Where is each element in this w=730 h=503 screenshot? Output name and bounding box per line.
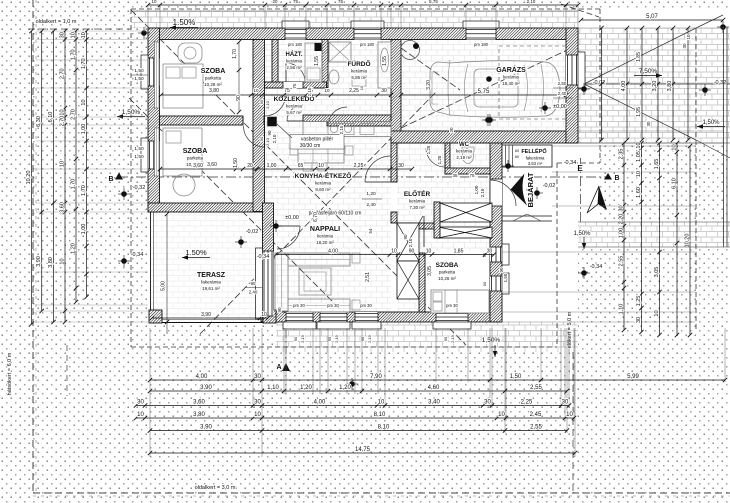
svg-text:35: 35 <box>452 173 458 178</box>
svg-text:90: 90 <box>259 99 264 104</box>
svg-text:3,20: 3,20 <box>426 80 432 90</box>
svg-text:4,00: 4,00 <box>196 374 208 380</box>
radiator strip szoba1 <box>155 42 160 108</box>
svg-text:3,90: 3,90 <box>200 425 212 431</box>
wall garage south <box>391 131 578 143</box>
svg-text:7,50%: 7,50% <box>639 68 658 75</box>
wardrobe eloter <box>440 203 492 222</box>
svg-text:2,10: 2,10 <box>265 100 270 109</box>
wall wc west partition <box>445 143 450 174</box>
dimension chain left col4 <box>64 31 66 322</box>
svg-text:1,50: 1,50 <box>134 76 144 82</box>
svg-text:GARÁZS: GARÁZS <box>496 65 526 74</box>
terrace edge lines <box>150 212 152 323</box>
svg-text:előkert = 5,0 m: előkert = 5,0 m <box>567 311 573 348</box>
svg-text:90: 90 <box>236 95 242 101</box>
svg-text:SZOBA: SZOBA <box>183 148 208 155</box>
svg-text:1,25: 1,25 <box>437 155 442 164</box>
dimension chain left col2 <box>41 31 43 311</box>
svg-text:1,25: 1,25 <box>426 145 431 154</box>
szoba1 armchair <box>178 43 202 63</box>
dimension chain bottom row 1 <box>150 379 725 381</box>
svg-text:E: E <box>577 164 583 173</box>
wall szoba1/szoba2 divider <box>160 116 244 125</box>
interior dim line kitchen y169 <box>160 168 412 170</box>
svg-text:1,50: 1,50 <box>233 158 239 168</box>
szoba2 bed <box>163 128 202 176</box>
svg-text:1,55: 1,55 <box>382 56 388 66</box>
svg-text:-0,32: -0,32 <box>714 80 727 86</box>
svg-text:90: 90 <box>409 249 415 255</box>
svg-text:NAPPALI: NAPPALI <box>310 226 340 233</box>
svg-text:75: 75 <box>284 88 290 94</box>
svg-text:30: 30 <box>484 400 491 406</box>
survey point <box>121 191 127 197</box>
svg-text:30: 30 <box>449 127 454 133</box>
svg-text:10: 10 <box>426 249 432 255</box>
svg-text:1,10: 1,10 <box>267 385 279 391</box>
svg-text:10,20: 10,20 <box>26 171 32 185</box>
svg-text:10: 10 <box>71 32 77 38</box>
svg-text:2,10: 2,10 <box>272 134 277 143</box>
window west szoba2 <box>148 141 160 169</box>
svg-text:1,85: 1,85 <box>454 249 464 255</box>
svg-text:FÜRDŐ: FÜRDŐ <box>347 59 370 68</box>
hazt boiler dark box <box>315 43 322 51</box>
garage interior dashed clearance box <box>499 46 566 119</box>
svg-text:2,20: 2,20 <box>619 214 625 225</box>
wall furdo south partition <box>327 120 391 126</box>
svg-text:2,45: 2,45 <box>530 412 542 418</box>
svg-text:1,55: 1,55 <box>314 56 320 66</box>
extension lines left side <box>36 30 148 32</box>
svg-text:ELŐTÉR: ELŐTÉR <box>404 189 431 198</box>
svg-text:1,50%: 1,50% <box>702 120 720 126</box>
svg-text:30/30 cm: 30/30 cm <box>300 143 321 149</box>
furdo shower <box>329 42 351 62</box>
svg-text:A: A <box>276 364 281 371</box>
wall wc south partition <box>445 168 490 174</box>
svg-text:3,60: 3,60 <box>60 202 66 213</box>
driveway slope fan lines <box>584 28 696 84</box>
svg-text:10: 10 <box>60 161 66 167</box>
eave edge line <box>131 10 578 12</box>
svg-text:1.50%: 1.50% <box>173 18 196 27</box>
svg-text:5,67 m²: 5,67 m² <box>286 110 302 115</box>
svg-text:kerámia: kerámia <box>315 181 332 186</box>
svg-text:10: 10 <box>151 0 157 4</box>
entrance porch white area <box>502 143 599 222</box>
svg-text:pm 30: pm 30 <box>360 303 372 308</box>
svg-text:6,70: 6,70 <box>313 212 319 222</box>
svg-text:3,80: 3,80 <box>193 412 205 418</box>
porch platform edge <box>502 215 552 217</box>
svg-text:fakerámia: fakerámia <box>526 156 545 161</box>
svg-text:2,10: 2,10 <box>527 0 536 4</box>
window north garage pm180 <box>466 28 496 40</box>
svg-text:5,75: 5,75 <box>478 89 490 95</box>
svg-text:8,10: 8,10 <box>374 412 386 418</box>
svg-text:30: 30 <box>254 374 261 380</box>
svg-text:1,50%: 1,50% <box>573 231 591 237</box>
svg-text:10: 10 <box>261 312 267 318</box>
svg-text:10,28 m²: 10,28 m² <box>204 82 222 87</box>
svg-text:75: 75 <box>292 83 297 89</box>
paving right driveway area <box>578 28 730 143</box>
svg-text:8,10: 8,10 <box>378 425 390 431</box>
svg-text:10: 10 <box>81 99 87 105</box>
divider door jamb lines <box>242 116 244 125</box>
svg-text:HÁZT.: HÁZT. <box>286 51 303 58</box>
window north furdo pm180 <box>354 28 381 40</box>
wall garage east <box>566 28 578 143</box>
svg-text:10: 10 <box>378 400 385 406</box>
svg-text:-0,34: -0,34 <box>131 252 144 258</box>
svg-text:10: 10 <box>566 412 573 418</box>
section mark B right <box>604 173 612 180</box>
section line B-B dash-dot <box>118 176 610 178</box>
svg-text:5,99: 5,99 <box>627 374 639 380</box>
pillar note <box>290 135 344 150</box>
svg-text:hátsókert = 6,0 m: hátsókert = 6,0 m <box>7 352 13 395</box>
svg-text:-0,34: -0,34 <box>564 160 577 166</box>
attic ladder padlasfeljaro <box>397 223 419 261</box>
svg-text:3,60: 3,60 <box>207 162 217 168</box>
survey point <box>487 117 493 123</box>
svg-text:1,00: 1,00 <box>474 185 479 194</box>
svg-text:10: 10 <box>254 412 261 418</box>
svg-text:60: 60 <box>515 149 519 153</box>
svg-text:8,60 m²: 8,60 m² <box>315 187 331 192</box>
svg-text:1,20: 1,20 <box>339 385 351 391</box>
door terrace door swing <box>277 226 300 249</box>
svg-text:10,26 m²: 10,26 m² <box>438 276 456 281</box>
svg-text:18,40 m²: 18,40 m² <box>502 81 520 86</box>
svg-text:1,20: 1,20 <box>366 191 376 197</box>
svg-text:75: 75 <box>338 0 344 4</box>
garage roof hip dash stub <box>561 4 599 17</box>
svg-text:30: 30 <box>646 121 651 127</box>
door szoba3 thin swing <box>416 216 423 247</box>
svg-text:1,70: 1,70 <box>232 49 238 59</box>
svg-text:5,07: 5,07 <box>646 14 658 20</box>
right lower total 10,20 <box>689 146 691 335</box>
svg-text:WC: WC <box>459 142 470 148</box>
svg-text:10: 10 <box>686 34 691 40</box>
svg-text:1,50%: 1,50% <box>122 109 141 116</box>
svg-text:5,00: 5,00 <box>161 281 167 291</box>
wall exterior north <box>148 28 578 40</box>
dimension chain left col5 <box>75 31 77 302</box>
door corridor to kitchen door <box>287 105 303 121</box>
svg-text:10: 10 <box>498 412 505 418</box>
door wc door <box>426 148 445 167</box>
svg-text:2,55: 2,55 <box>530 385 542 391</box>
svg-text:3,05: 3,05 <box>427 266 433 276</box>
svg-text:90: 90 <box>360 336 365 341</box>
svg-text:fakerámia: fakerámia <box>201 280 221 285</box>
extension lines bottom <box>149 328 151 457</box>
svg-text:1,70: 1,70 <box>71 179 77 190</box>
svg-text:-0,34: -0,34 <box>257 254 270 260</box>
svg-text:SZOBA: SZOBA <box>436 262 459 269</box>
roof hip diagonal rising to garage ridge <box>200 92 436 334</box>
extension lines top <box>147 5 149 28</box>
svg-text:90: 90 <box>499 267 504 273</box>
svg-text:1,20: 1,20 <box>71 243 77 254</box>
survey point <box>581 86 587 92</box>
dimension chain bottom total 14,75 <box>150 452 575 454</box>
svg-text:19,61 m²: 19,61 m² <box>202 286 220 291</box>
svg-text:-0,32: -0,32 <box>133 185 146 191</box>
street curb lines right <box>723 27 725 247</box>
svg-text:parketta: parketta <box>187 156 204 161</box>
svg-text:-0,02: -0,02 <box>246 229 259 235</box>
svg-text:3,90: 3,90 <box>200 385 212 391</box>
svg-text:90: 90 <box>327 336 332 341</box>
szoba3 parquet (white) <box>425 251 490 312</box>
door kitchen open to eloter <box>365 156 391 182</box>
right upper dim line x658 <box>657 28 659 140</box>
dimension chain bottom row 2 <box>150 390 567 392</box>
svg-text:2,19: 2,19 <box>334 334 339 343</box>
svg-text:10: 10 <box>253 88 259 93</box>
svg-text:3,05: 3,05 <box>654 267 660 278</box>
dimension chain bottom row 4 <box>136 417 574 419</box>
svg-text:parketta: parketta <box>205 76 222 81</box>
svg-text:-0,02: -0,02 <box>593 80 606 86</box>
svg-text:1,00: 1,00 <box>619 228 625 239</box>
house interior base (white) <box>148 28 578 322</box>
szoba3 bed <box>431 290 489 313</box>
kitchen table and chairs <box>298 144 344 163</box>
dimension chain left total 10,20 <box>31 31 33 324</box>
svg-text:1,95: 1,95 <box>636 107 642 117</box>
svg-text:SZOBA: SZOBA <box>201 68 226 75</box>
dimension top 5,07 <box>581 19 723 21</box>
setback line hatsokert dashed <box>66 345 68 396</box>
furdo bathtub <box>378 42 391 88</box>
paving sidewalk band east <box>578 222 730 247</box>
svg-text:-0,02: -0,02 <box>543 183 556 189</box>
svg-text:10: 10 <box>137 412 144 418</box>
window east szoba3 lower <box>490 276 502 291</box>
window south nappali w1 <box>286 312 313 322</box>
svg-text:2,19: 2,19 <box>300 334 305 343</box>
survey point <box>542 105 548 111</box>
svg-text:30: 30 <box>562 400 569 406</box>
svg-text:FELLÉPŐ: FELLÉPŐ <box>521 147 547 155</box>
svg-text:5,75: 5,75 <box>429 0 438 4</box>
wall hazt/furdo partition <box>322 40 328 88</box>
svg-text:1,70: 1,70 <box>81 185 87 196</box>
svg-text:54: 54 <box>368 228 373 234</box>
window terrace door from nappali <box>263 251 274 316</box>
svg-text:10: 10 <box>359 85 364 90</box>
dimension chain left col3 <box>53 31 55 322</box>
svg-text:pm 30: pm 30 <box>446 303 458 308</box>
kitchen counter with sink <box>303 122 391 137</box>
wall garage west <box>391 40 401 144</box>
roof hip diagonal from NW corner <box>131 10 466 345</box>
svg-text:1,60: 1,60 <box>636 187 642 198</box>
tiled floors: hallway/kitchen/bath/garage <box>264 39 391 134</box>
svg-text:10: 10 <box>654 310 660 316</box>
sidewalk band edge lines <box>578 221 730 223</box>
paving top strip <box>131 11 578 28</box>
right upper dim line x642 <box>641 28 643 140</box>
survey point <box>505 163 511 169</box>
svg-text:3,60: 3,60 <box>193 163 203 169</box>
svg-text:30: 30 <box>254 400 261 406</box>
svg-text:-0,34: -0,34 <box>590 264 603 270</box>
svg-text:10: 10 <box>318 163 324 169</box>
survey point <box>121 258 127 264</box>
property line west dashed <box>32 0 34 493</box>
wall exterior west <box>148 28 160 212</box>
garage roof diagonal <box>401 45 578 128</box>
svg-text:vasbeton pillér: vasbeton pillér <box>301 137 334 143</box>
svg-text:75: 75 <box>469 173 475 178</box>
hazt washer <box>305 43 322 82</box>
interior rotated dims <box>238 42 240 112</box>
wall exterior south <box>261 312 502 322</box>
white band above right paving <box>578 9 730 28</box>
svg-text:1,50: 1,50 <box>503 273 508 282</box>
section line E vertical <box>580 158 582 222</box>
car in garage <box>430 61 560 118</box>
wall hazt west partition <box>272 40 278 88</box>
svg-text:2,40: 2,40 <box>249 290 258 295</box>
svg-text:2,50: 2,50 <box>558 81 567 86</box>
svg-text:30: 30 <box>381 88 387 94</box>
svg-text:2,70: 2,70 <box>71 109 77 120</box>
wall exterior east <box>490 131 502 322</box>
svg-text:1,50%: 1,50% <box>482 337 501 344</box>
wardrobe szoba3 <box>438 227 492 238</box>
svg-text:30: 30 <box>682 43 687 49</box>
entrance arrow black triangle <box>511 174 528 206</box>
right upper dim line x673 <box>672 28 674 140</box>
roof overhang dashed outline <box>131 8 600 10</box>
svg-text:30: 30 <box>487 249 493 255</box>
survey point <box>485 117 491 123</box>
wall hazt south partition <box>265 82 327 88</box>
svg-text:10: 10 <box>60 109 66 115</box>
window east szoba3 upper <box>490 247 502 262</box>
svg-text:1,00: 1,00 <box>81 124 87 135</box>
door szoba1 from corridor <box>265 95 286 116</box>
door szoba2 from corridor <box>244 126 265 147</box>
svg-text:B: B <box>614 175 619 182</box>
extension lines right side <box>578 27 723 29</box>
svg-text:2,25: 2,25 <box>349 88 359 94</box>
svg-text:kerámia: kerámia <box>503 75 520 80</box>
entrance door opening <box>490 179 502 206</box>
wall kitchen east partition upper <box>391 143 397 182</box>
svg-text:1,10: 1,10 <box>619 304 625 315</box>
setback line front (elokert) dashed <box>572 352 574 493</box>
svg-text:30: 30 <box>137 400 144 406</box>
survey point <box>349 381 355 387</box>
svg-text:KONYHA-ÉTKEZŐ: KONYHA-ÉTKEZŐ <box>295 171 352 180</box>
radiator strip szoba2 <box>155 128 160 176</box>
svg-text:pm 30: pm 30 <box>293 303 305 308</box>
svg-text:10: 10 <box>636 171 642 177</box>
dimension chain top cropped <box>148 4 578 6</box>
svg-text:3,20: 3,20 <box>652 81 658 92</box>
svg-text:6,10: 6,10 <box>48 112 54 123</box>
survey point <box>141 30 147 36</box>
svg-text:30: 30 <box>636 317 642 323</box>
svg-text:2,19: 2,19 <box>367 334 372 343</box>
svg-text:1.50%: 1.50% <box>185 248 207 257</box>
svg-text:4,00: 4,00 <box>621 81 627 92</box>
svg-text:1,00: 1,00 <box>267 163 277 169</box>
wall kitchen north wall <box>303 115 391 122</box>
svg-text:2,25: 2,25 <box>521 400 533 406</box>
window south nappali w2 <box>320 312 347 322</box>
svg-text:10: 10 <box>672 144 678 150</box>
right upper dim line x688 <box>687 28 689 140</box>
furdo wc + sink <box>329 70 339 84</box>
svg-text:oldalkert = 1,0 m: oldalkert = 1,0 m <box>36 19 77 25</box>
svg-text:B: B <box>108 176 113 183</box>
door furdo door <box>328 107 347 126</box>
survey point <box>238 239 244 245</box>
svg-text:3,40: 3,40 <box>428 400 440 406</box>
svg-text:6,30: 6,30 <box>36 116 42 127</box>
terrace dim 3,90 <box>152 317 268 319</box>
svg-text:2,56 m²: 2,56 m² <box>286 65 302 70</box>
paving south strip below house <box>276 322 578 352</box>
svg-text:3,80: 3,80 <box>667 81 673 92</box>
right upper dim line x627 <box>626 28 628 140</box>
wall szoba3 west partition <box>419 253 425 312</box>
svg-text:4,00: 4,00 <box>328 249 338 255</box>
survey point <box>273 223 279 229</box>
survey point <box>534 190 540 196</box>
svg-text:3,60: 3,60 <box>193 400 205 406</box>
svg-text:10: 10 <box>60 258 66 264</box>
svg-text:3,53 m²: 3,53 m² <box>528 161 543 166</box>
svg-text:2,10: 2,10 <box>265 137 270 146</box>
svg-text:75: 75 <box>293 0 299 4</box>
svg-text:2,19 m²: 2,19 m² <box>456 155 472 160</box>
szoba1 bed <box>163 64 203 108</box>
wall eloter south partition <box>397 223 434 229</box>
svg-text:kerámia: kerámia <box>317 234 334 239</box>
svg-text:1,50: 1,50 <box>134 68 144 74</box>
svg-text:parketta: parketta <box>439 270 456 275</box>
svg-text:10: 10 <box>636 142 642 148</box>
svg-text:5,85 m²: 5,85 m² <box>351 75 367 80</box>
svg-text:65: 65 <box>298 163 304 169</box>
svg-text:10: 10 <box>391 249 397 255</box>
svg-text:±0,00: ±0,00 <box>553 104 567 110</box>
svg-text:3,90: 3,90 <box>36 256 42 267</box>
terrace column SE <box>263 310 276 323</box>
svg-text:2,70: 2,70 <box>60 68 66 79</box>
survey point <box>720 24 726 30</box>
svg-text:2,55: 2,55 <box>530 425 542 431</box>
nappali sofa group <box>275 253 288 311</box>
right lower block lines <box>623 143 625 330</box>
interior dim line nappali y252 <box>276 254 494 256</box>
svg-text:pm 180: pm 180 <box>288 42 303 47</box>
svg-text:3,80: 3,80 <box>209 88 219 94</box>
svg-text:30: 30 <box>619 205 625 211</box>
